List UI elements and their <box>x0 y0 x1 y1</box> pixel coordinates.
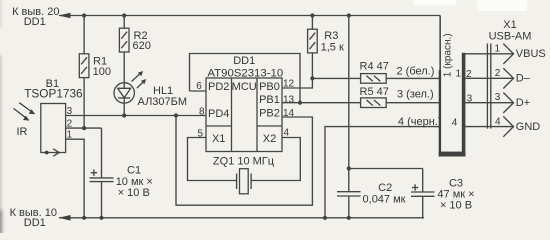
svg-text:VBUS: VBUS <box>516 48 546 60</box>
svg-text:X2: X2 <box>263 133 276 145</box>
svg-text:R4 47: R4 47 <box>360 61 389 73</box>
svg-text:D+: D+ <box>516 97 530 109</box>
svg-text:× 10 В: × 10 В <box>118 187 150 199</box>
svg-text:АЛ307БМ: АЛ307БМ <box>138 96 188 108</box>
svg-text:MCU: MCU <box>232 81 257 93</box>
svg-text:3 (зел.): 3 (зел.) <box>397 89 434 101</box>
svg-text:2: 2 <box>495 68 501 79</box>
svg-text:X1: X1 <box>503 19 516 31</box>
svg-text:X1: X1 <box>212 133 225 145</box>
svg-text:R5 47: R5 47 <box>360 86 389 98</box>
svg-text:ZQ1 10 МГц: ZQ1 10 МГц <box>213 156 275 168</box>
svg-text:C2: C2 <box>378 182 392 194</box>
svg-text:DD1: DD1 <box>24 16 46 28</box>
svg-text:4 (черн.): 4 (черн.) <box>398 116 442 128</box>
svg-text:TSOP1736: TSOP1736 <box>24 87 83 101</box>
svg-text:DD1: DD1 <box>24 217 46 229</box>
svg-text:1: 1 <box>455 68 461 79</box>
svg-text:2 (бел.): 2 (бел.) <box>397 66 435 78</box>
svg-text:PB0: PB0 <box>259 81 280 93</box>
svg-text:GND: GND <box>516 121 541 133</box>
svg-text:4: 4 <box>495 116 501 127</box>
svg-text:0,047 мк: 0,047 мк <box>363 194 406 206</box>
svg-text:PD2: PD2 <box>208 81 229 93</box>
svg-text:4: 4 <box>452 117 458 128</box>
svg-text:1,5 к: 1,5 к <box>321 41 344 53</box>
svg-text:3: 3 <box>495 92 501 103</box>
svg-text:1: 1 <box>494 43 500 54</box>
svg-text:1 (красн.): 1 (красн.) <box>442 33 453 77</box>
svg-text:6: 6 <box>196 81 202 92</box>
svg-text:USB-AM: USB-AM <box>489 31 532 43</box>
svg-text:13: 13 <box>283 94 295 105</box>
svg-text:D–: D– <box>516 73 531 85</box>
svg-text:PB1: PB1 <box>259 94 280 106</box>
svg-text:100: 100 <box>93 66 111 78</box>
svg-text:620: 620 <box>133 40 151 52</box>
svg-text:DD1: DD1 <box>233 55 255 67</box>
svg-text:R3: R3 <box>324 30 338 42</box>
svg-text:IR: IR <box>17 126 28 138</box>
svg-text:8: 8 <box>199 106 205 117</box>
svg-text:PD4: PD4 <box>208 108 229 120</box>
svg-text:× 10 В: × 10 В <box>440 200 472 212</box>
svg-text:C1: C1 <box>127 165 141 177</box>
svg-text:PB2: PB2 <box>259 108 280 120</box>
